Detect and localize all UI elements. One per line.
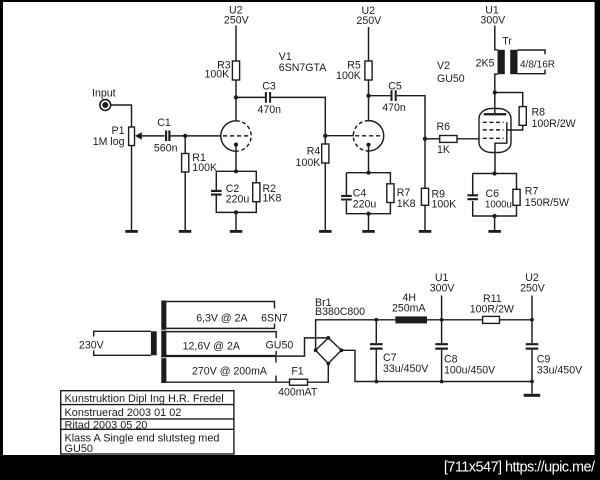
svg-text:400mAT: 400mAT [278, 387, 318, 399]
svg-text:300V: 300V [480, 15, 506, 27]
svg-text:6,3V @ 2A: 6,3V @ 2A [196, 313, 248, 325]
svg-text:1M log: 1M log [93, 136, 125, 148]
svg-text:C5: C5 [388, 80, 402, 92]
svg-text:C1: C1 [157, 117, 171, 129]
svg-text:100K: 100K [336, 70, 361, 82]
svg-text:F1: F1 [291, 366, 303, 378]
svg-text:270V @ 200mA: 270V @ 200mA [192, 366, 268, 378]
svg-text:100K: 100K [192, 162, 217, 174]
svg-text:220u: 220u [353, 199, 377, 211]
svg-text:100K: 100K [204, 69, 229, 81]
svg-text:100R/2W: 100R/2W [470, 303, 514, 315]
svg-text:R4: R4 [307, 146, 321, 158]
svg-text:V2: V2 [437, 60, 450, 72]
svg-text:250mA: 250mA [392, 302, 426, 314]
svg-text:1K8: 1K8 [397, 198, 416, 210]
svg-text:GU50: GU50 [65, 443, 93, 455]
svg-text:R7: R7 [525, 185, 539, 197]
svg-text:C6: C6 [486, 188, 500, 200]
svg-text:Konstruerad 2003 01 02: Konstruerad 2003 01 02 [65, 407, 182, 419]
svg-text:250V: 250V [356, 15, 382, 27]
svg-text:GU50: GU50 [266, 340, 294, 352]
svg-text:100R/2W: 100R/2W [532, 118, 576, 130]
svg-text:2K5: 2K5 [476, 58, 495, 70]
svg-text:250V: 250V [520, 282, 546, 294]
svg-text:560n: 560n [154, 143, 178, 155]
svg-text:33u/450V: 33u/450V [383, 363, 429, 375]
svg-text:Tr: Tr [502, 36, 512, 48]
svg-text:220u: 220u [226, 193, 250, 205]
svg-text:C3: C3 [262, 80, 276, 92]
svg-text:4/8/16R: 4/8/16R [520, 59, 555, 70]
svg-text:1K: 1K [437, 144, 450, 156]
svg-text:6SN7GTA: 6SN7GTA [279, 62, 327, 74]
svg-text:[711x547] https://upic.me/: [711x547] https://upic.me/ [444, 460, 596, 476]
svg-text:1000u: 1000u [485, 200, 512, 211]
svg-text:100u/450V: 100u/450V [444, 364, 496, 376]
svg-text:12,6V @ 2A: 12,6V @ 2A [183, 341, 241, 353]
svg-text:B380C800: B380C800 [315, 306, 365, 318]
svg-text:Ritad 2003 05 20: Ritad 2003 05 20 [65, 419, 148, 431]
svg-text:6SN7: 6SN7 [261, 313, 288, 325]
svg-text:Input: Input [92, 87, 116, 99]
svg-text:470n: 470n [258, 104, 282, 116]
svg-text:R6: R6 [437, 121, 451, 133]
svg-text:GU50: GU50 [437, 73, 465, 85]
svg-text:100K: 100K [432, 199, 457, 211]
svg-text:R8: R8 [532, 107, 546, 119]
svg-text:1K8: 1K8 [263, 193, 282, 205]
svg-text:470n: 470n [382, 102, 406, 114]
svg-text:250V: 250V [224, 15, 250, 27]
svg-text:33u/450V: 33u/450V [537, 364, 583, 376]
svg-text:Kunstruktion Dipl Ing H.R. Fre: Kunstruktion Dipl Ing H.R. Fredel [65, 393, 224, 405]
svg-text:150R/5W: 150R/5W [525, 197, 569, 209]
svg-text:100K: 100K [296, 157, 321, 169]
svg-text:R7: R7 [397, 187, 411, 199]
svg-text:300V: 300V [430, 282, 456, 294]
svg-text:230V: 230V [79, 339, 105, 351]
